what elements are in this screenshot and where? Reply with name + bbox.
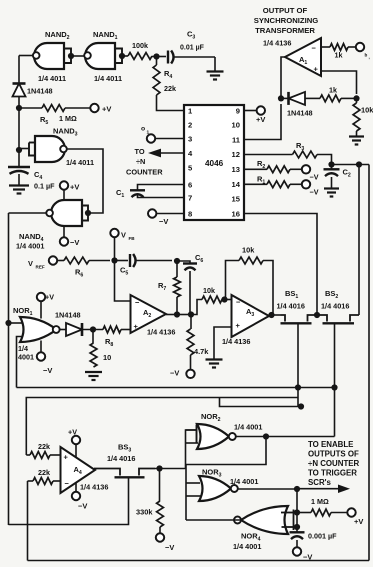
svg-text:100k: 100k	[132, 41, 148, 50]
svg-text:2: 2	[188, 121, 192, 130]
wire A2 output up to 10k	[191, 300, 202, 315]
svg-text:15: 15	[232, 195, 241, 204]
svg-text:−V: −V	[43, 366, 52, 375]
diode 1N4148 (A1 feedback, pointing left)	[281, 92, 313, 118]
svg-text:−V: −V	[310, 188, 319, 197]
svg-text:22k: 22k	[38, 468, 50, 477]
wire BS2 control gate	[331, 323, 337, 436]
svg-text:1/4 4136: 1/4 4136	[80, 483, 108, 492]
svg-text:SCR's: SCR's	[308, 478, 332, 487]
wire NAND2 output to diode column	[19, 56, 33, 84]
wire C2 node to right buses	[332, 161, 370, 167]
wire A3 + input to ground	[214, 327, 232, 359]
capacitor C5	[115, 254, 173, 277]
node NOR2 output	[236, 433, 335, 439]
node BS3 output / 330k	[155, 465, 186, 471]
svg-text:+V: +V	[256, 115, 265, 124]
resistor 22k (A4 - input)	[28, 468, 61, 484]
svg-text:1/4 4016: 1/4 4016	[277, 302, 305, 311]
svg-text:−V: −V	[159, 217, 168, 226]
IC U1 4046 phase-locked loop	[184, 105, 244, 220]
op-amp A3 (1/4 4136)	[222, 295, 269, 346]
svg-text:−V: −V	[303, 553, 312, 562]
ground for 10	[85, 372, 102, 380]
svg-text:REF: REF	[36, 265, 45, 270]
wire NOR2 output down to NOR3 input	[186, 437, 266, 521]
terminal +V (A4)	[68, 428, 80, 459]
capacitor C3 0.01uF	[168, 30, 215, 64]
svg-text:13: 13	[232, 165, 240, 174]
svg-text:TO ENABLE: TO ENABLE	[308, 440, 353, 449]
wire bus to BS2 right lead	[358, 165, 360, 316]
op-amp A4 (1/4 4136)	[61, 447, 109, 493]
terminal +V (NAND4)	[60, 181, 80, 201]
svg-text:10k: 10k	[242, 246, 255, 255]
svg-text:−V: −V	[165, 543, 174, 552]
svg-text:÷N: ÷N	[136, 157, 145, 166]
svg-text:9: 9	[236, 107, 240, 116]
resistor 100k	[128, 41, 152, 59]
wire R4 to pin1	[157, 95, 185, 111]
wire NAND2 input to NAND1 output	[71, 55, 84, 57]
terminal VREF	[28, 256, 57, 269]
svg-text:22k: 22k	[164, 84, 176, 93]
resistor R6	[57, 257, 110, 279]
svg-text:330k: 330k	[136, 508, 153, 517]
wire NAND4 output to left bus	[9, 212, 47, 214]
nor gate NOR4 (1/4 4001, facing left)	[233, 506, 288, 551]
svg-text:1N4148: 1N4148	[287, 109, 313, 118]
nor gate NOR2 (1/4 4001)	[197, 412, 263, 449]
node NOR4 input 1 / 1M resistor	[294, 509, 300, 515]
terminal -V (R2)	[302, 165, 319, 181]
node NOR4 input 2 / capacitor	[294, 513, 300, 531]
svg-text:+: +	[134, 322, 139, 331]
svg-text:÷N COUNTER: ÷N COUNTER	[308, 459, 360, 468]
terminal +V (1M)	[347, 508, 363, 526]
svg-text:1k: 1k	[329, 86, 337, 95]
svg-text:o: o	[141, 126, 145, 133]
label TO ENABLE OUTPUTS	[308, 440, 360, 487]
wire pin 16 to BS1/BS2 node	[244, 214, 317, 316]
wire NOR1 input 2 from feedback line	[17, 337, 23, 388]
wire BS3 output to NOR2 input	[186, 430, 197, 469]
svg-text:b: b	[365, 53, 368, 58]
diode 1N4148 (NOR1 output)	[55, 311, 82, 337]
terminal -V (NAND4)	[60, 226, 80, 247]
ground for A3	[206, 360, 223, 368]
svg-text:1/4 4011: 1/4 4011	[38, 74, 66, 83]
svg-text:3: 3	[188, 135, 192, 144]
svg-text:−V: −V	[78, 502, 87, 511]
svg-text:12: 12	[232, 150, 240, 159]
svg-text:1/4 4001: 1/4 4001	[233, 542, 261, 551]
wire bottom loop	[28, 560, 370, 562]
terminal synchronizing output	[356, 43, 370, 60]
resistor 4.7k (A2 out to -V)	[187, 315, 209, 370]
terminal o1 (pin 3)	[141, 126, 184, 143]
resistor R5 1 Mohm	[19, 105, 90, 127]
svg-text:6: 6	[188, 181, 192, 190]
svg-text:−V: −V	[70, 238, 79, 247]
svg-text:+: +	[314, 65, 319, 74]
svg-text:0.001 µF: 0.001 µF	[308, 532, 337, 541]
node NAND3 input	[16, 147, 22, 153]
svg-text:TRANSFORMER: TRANSFORMER	[255, 26, 315, 35]
svg-text:1/4 4136: 1/4 4136	[147, 328, 175, 337]
resistor R7	[158, 261, 180, 315]
svg-text:10k: 10k	[203, 286, 215, 295]
svg-text:0.1 µF: 0.1 µF	[34, 182, 55, 191]
resistor 1k (A1 feedback)	[305, 86, 360, 102]
svg-text:OUTPUTS OF: OUTPUTS OF	[308, 450, 359, 459]
svg-text:11: 11	[232, 136, 241, 145]
node A2 output / C6 / 4.7k	[177, 311, 194, 317]
svg-text:+V: +V	[70, 183, 79, 192]
svg-text:4046: 4046	[205, 159, 224, 168]
svg-text:+: +	[64, 453, 69, 462]
resistor R2	[244, 159, 302, 173]
wire A2 feedback from C5 node	[115, 261, 131, 302]
svg-text:4.7k: 4.7k	[194, 347, 209, 356]
terminal +V (pin 9)	[244, 106, 265, 124]
wire feedback line L1 (NOR1 input row)	[17, 387, 335, 389]
wire NOR4 output to NOR3 input column	[186, 519, 241, 521]
node junction 100k/C3/R4	[152, 53, 166, 59]
diode 1N4148 (left column, pointing up)	[13, 84, 53, 97]
op-amp A1 (1/4 4136)	[263, 38, 321, 76]
node VFB/R6/C5	[111, 237, 117, 263]
terminal +V (NOR1)	[37, 293, 54, 319]
wire diode to R5 node	[16, 97, 22, 149]
wire 22k2 to bottom loop	[27, 481, 29, 561]
terminal VFB	[110, 229, 135, 241]
svg-text:1: 1	[147, 130, 150, 136]
wire A1 output down to diode node	[278, 57, 285, 102]
terminal -V (330k)	[156, 533, 175, 552]
op-amp A2 (1/4 4136)	[131, 295, 176, 337]
wire NAND3 output to NAND4 input	[67, 149, 103, 213]
svg-text:SYNCHRONIZING: SYNCHRONIZING	[254, 16, 319, 25]
wire BS1 control gate	[295, 323, 301, 406]
svg-text:+V: +V	[102, 105, 111, 114]
nor gate NOR1 (1/4 4001)	[13, 306, 60, 362]
svg-text:1/4 4011: 1/4 4011	[94, 74, 122, 83]
ground for C4	[9, 186, 29, 194]
label output of synchronizing transformer	[254, 6, 319, 35]
wire left bus down to NOR1 and BS3 gate line	[5, 213, 11, 525]
svg-text:V: V	[121, 231, 126, 240]
svg-text:+V: +V	[45, 293, 54, 302]
svg-text:22k: 22k	[38, 442, 50, 451]
svg-text:1N4148: 1N4148	[27, 87, 53, 96]
wire NOR3 inputs bracket	[186, 483, 201, 496]
node pin16/BS1/BS2	[314, 312, 320, 318]
svg-text:−: −	[135, 298, 140, 307]
resistor 10k (A1 to ground)	[353, 98, 373, 136]
svg-text:14: 14	[232, 180, 241, 189]
terminal -V (4.7k)	[170, 369, 195, 378]
resistor 330k	[136, 469, 163, 534]
svg-text:TO TRIGGER: TO TRIGGER	[308, 469, 357, 478]
svg-text:−V: −V	[170, 369, 179, 378]
nand gate NAND4 (1/4 4001)	[16, 200, 91, 251]
wire NAND1 to 100k	[122, 55, 128, 57]
terminal -V (0.001uF)	[293, 547, 313, 561]
capacitor C2	[324, 168, 351, 189]
resistor 1k (A1 output load)	[330, 44, 356, 60]
svg-text:10: 10	[103, 353, 111, 362]
resistor 10k (A3 input)	[202, 286, 232, 303]
svg-text:1 MΩ: 1 MΩ	[311, 497, 329, 506]
capacitor C1 (pins 6-7)	[116, 185, 184, 200]
svg-text:1/4 4136: 1/4 4136	[222, 337, 250, 346]
svg-text:1/4 4016: 1/4 4016	[321, 302, 349, 311]
svg-text:1 MΩ: 1 MΩ	[59, 114, 77, 123]
bilateral switch BS1 (1/4 4016)	[277, 289, 318, 323]
svg-text:1/4 4001: 1/4 4001	[16, 242, 44, 251]
svg-text:+: +	[236, 321, 241, 330]
capacitor 0.001uF	[290, 527, 338, 547]
wire pin 11 to A1 output node	[244, 104, 281, 140]
svg-text:10: 10	[232, 121, 240, 130]
svg-text:TO: TO	[135, 147, 145, 156]
resistor 1 Mohm	[297, 497, 347, 516]
svg-text:7: 7	[188, 194, 192, 203]
svg-text:−V: −V	[310, 173, 319, 182]
wire right bus down to bottom section	[368, 165, 370, 561]
pin 4 arrow TO /N COUNTER	[126, 147, 184, 177]
svg-text:−: −	[312, 44, 317, 53]
capacitor C4 0.1uF	[8, 150, 55, 191]
nand gate NAND2 (1/4 4011)	[33, 30, 74, 83]
svg-text:10k: 10k	[361, 106, 373, 115]
ground for C2	[324, 189, 339, 197]
svg-text:1/4 4001: 1/4 4001	[234, 423, 262, 432]
svg-text:−: −	[65, 479, 70, 488]
svg-text:1/4 4011: 1/4 4011	[66, 158, 94, 167]
node R3/C2	[328, 160, 334, 169]
svg-text:OUTPUT OF: OUTPUT OF	[263, 6, 308, 15]
svg-text:16: 16	[232, 210, 240, 219]
nand gate NAND3 (1/4 4011)	[19, 127, 94, 168]
terminal -V (NOR1)	[37, 341, 53, 376]
svg-text:1/4 4136: 1/4 4136	[263, 39, 291, 48]
wire pin 12 to R3	[244, 154, 293, 156]
wire NOR1 input 1	[9, 322, 23, 324]
svg-text:8: 8	[188, 210, 192, 219]
svg-text:+V: +V	[354, 517, 363, 526]
resistor 10k (A3 feedback)	[225, 246, 274, 316]
svg-text:1N4148: 1N4148	[55, 311, 81, 320]
svg-text:1k: 1k	[335, 51, 343, 60]
wire feedback line L2 (to A4 22k)	[26, 398, 304, 456]
capacitor C6	[177, 253, 203, 315]
resistor R3	[293, 141, 332, 160]
wire BS3 control gate	[9, 477, 129, 524]
resistor 22k (A4 + input)	[26, 442, 60, 458]
bilateral switch BS2 (1/4 4016)	[317, 289, 359, 323]
svg-text:FB: FB	[129, 236, 136, 241]
wire NOR3 node down to NOR4 node	[296, 489, 298, 513]
ground for C3	[207, 57, 224, 80]
terminal -V (A4)	[72, 482, 88, 511]
node C5/R7/C6	[174, 258, 180, 264]
svg-text:1/4 4016: 1/4 4016	[107, 454, 135, 463]
resistor R1	[244, 175, 302, 188]
resistor R8	[103, 326, 131, 348]
svg-text:,: ,	[369, 55, 370, 60]
svg-text:V: V	[28, 259, 33, 268]
svg-text:4001: 4001	[18, 353, 34, 362]
nor gate NOR3 (1/4 4001)	[199, 468, 258, 502]
resistor 10 (to ground)	[90, 330, 111, 368]
wire NOR2 inputs bracket	[186, 430, 199, 443]
wire A1 inverting input to 1k	[321, 46, 330, 48]
svg-text:1/4 4001: 1/4 4001	[230, 477, 258, 486]
svg-text:COUNTER: COUNTER	[126, 168, 163, 177]
wire NOR3 output / arrow to SCR enable	[238, 485, 350, 494]
terminal -V (pin 8)	[148, 209, 184, 226]
nand gate NAND1 (1/4 4011)	[84, 30, 125, 83]
ground for 10k	[349, 137, 364, 145]
resistor R4 22k	[153, 57, 176, 96]
node A2 output / R7	[166, 311, 180, 317]
node A3 output	[268, 312, 280, 318]
bilateral switch BS3 (1/4 4016)	[94, 443, 155, 478]
wire NOR4 inputs bracket	[281, 510, 297, 531]
terminal +V (R5)	[90, 104, 111, 114]
wire A1 noninverting input to feedback node	[321, 71, 357, 94]
svg-text:−: −	[236, 298, 241, 307]
terminal -V (R1)	[302, 180, 319, 196]
node diode/R8/10	[82, 326, 103, 332]
svg-text:0.01 µF: 0.01 µF	[180, 45, 205, 52]
